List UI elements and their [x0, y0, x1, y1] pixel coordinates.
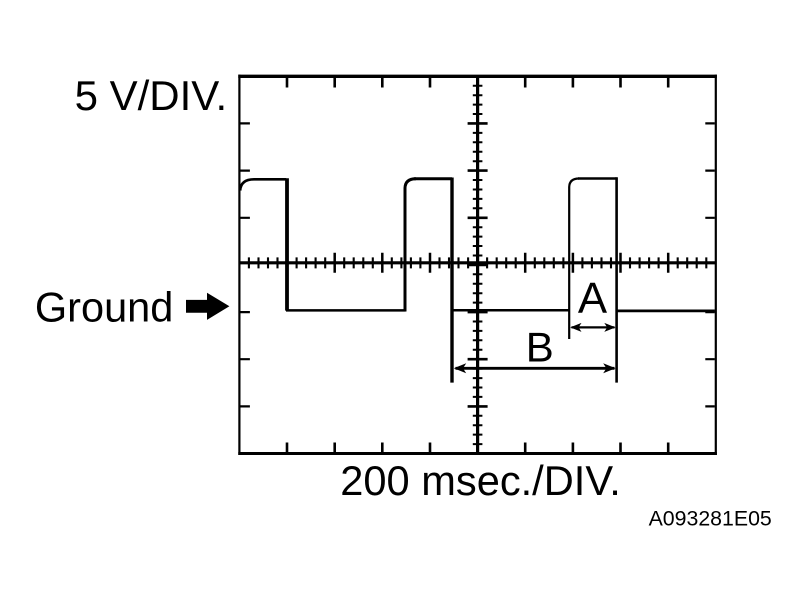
scope frame top edge — [238, 75, 717, 78]
dimension B left arrowhead — [454, 363, 466, 373]
right edge division ticks — [705, 123, 715, 406]
svg-text:200 msec./DIV.: 200 msec./DIV. — [340, 457, 621, 504]
ground level arrow (filled right-pointing) — [186, 293, 229, 320]
center vertical graticule axis — [476, 76, 479, 453]
waveform low segment 1 — [286, 309, 406, 312]
center horizontal graticule axis — [239, 261, 715, 264]
svg-text:5 V/DIV.: 5 V/DIV. — [75, 72, 228, 119]
waveform pulse 1 falling edge — [285, 178, 289, 310]
waveform pulse 2 rising edge with rounded corner — [405, 179, 416, 312]
waveform pulse 2 top — [414, 177, 452, 180]
scope frame right edge — [715, 75, 717, 455]
horizontal axis division ticks — [287, 253, 668, 273]
dimension B right arrowhead — [603, 363, 615, 373]
waveform pulse 2 falling edge (extends down as B dimension boundary) — [450, 178, 453, 383]
waveform pulse 3 falling edge (extends down as A/B dimension boundary) — [615, 177, 618, 382]
dimension A left arrowhead — [570, 323, 581, 332]
waveform pulse 3 top — [578, 177, 617, 180]
waveform pulse 3 rising edge with rounded corner (extends down as A dimension boundary) — [569, 179, 579, 340]
svg-text:A: A — [578, 274, 608, 323]
waveform low segment 3 (to frame right edge) — [617, 310, 715, 313]
scope frame bottom edge — [238, 452, 717, 455]
svg-text:Ground: Ground — [35, 284, 173, 331]
top edge division ticks — [287, 77, 668, 87]
dimension A right arrowhead — [604, 323, 615, 332]
horizontal axis small ticks — [249, 257, 706, 268]
left edge division ticks — [240, 123, 250, 406]
dimension A arrow line — [572, 326, 615, 328]
svg-text:B: B — [526, 323, 554, 370]
waveform pulse 1 top (from frame left edge, rounded rise) — [240, 179, 286, 190]
svg-text:A093281E05: A093281E05 — [649, 506, 772, 530]
vertical axis division ticks — [468, 123, 488, 406]
dimension B arrow line — [456, 367, 615, 370]
vertical axis small ticks — [473, 86, 483, 444]
bottom edge division ticks — [287, 443, 668, 453]
waveform low segment 2 — [452, 309, 570, 312]
scope frame left edge — [238, 75, 240, 455]
